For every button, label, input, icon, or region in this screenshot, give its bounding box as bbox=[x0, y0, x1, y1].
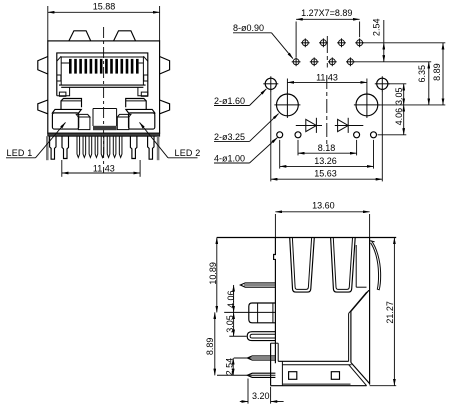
svg-text:3.20: 3.20 bbox=[252, 391, 270, 401]
svg-text:LED 1: LED 1 bbox=[7, 148, 33, 158]
svg-text:4.06: 4.06 bbox=[226, 290, 236, 308]
svg-text:15.63: 15.63 bbox=[314, 169, 337, 179]
svg-text:10.89: 10.89 bbox=[208, 262, 218, 285]
svg-text:13.60: 13.60 bbox=[312, 200, 335, 210]
svg-text:8-ø0.90: 8-ø0.90 bbox=[233, 23, 264, 33]
svg-text:11.43: 11.43 bbox=[316, 72, 338, 82]
svg-text:4.06: 4.06 bbox=[394, 108, 404, 126]
svg-text:13.26: 13.26 bbox=[314, 156, 337, 166]
svg-text:LED 2: LED 2 bbox=[175, 148, 201, 158]
svg-text:3.05: 3.05 bbox=[225, 315, 235, 333]
svg-text:2.54: 2.54 bbox=[372, 19, 382, 37]
svg-text:2-ø1.60: 2-ø1.60 bbox=[214, 96, 245, 106]
svg-text:4-ø1.00: 4-ø1.00 bbox=[214, 153, 245, 163]
svg-text:6.35: 6.35 bbox=[417, 65, 427, 83]
svg-text:21.27: 21.27 bbox=[385, 301, 395, 324]
svg-text:2.54: 2.54 bbox=[224, 358, 234, 376]
svg-text:1.27X7=8.89: 1.27X7=8.89 bbox=[301, 8, 352, 18]
svg-text:8.89: 8.89 bbox=[205, 338, 215, 356]
svg-text:11.43: 11.43 bbox=[93, 163, 115, 173]
svg-text:15.88: 15.88 bbox=[93, 2, 116, 12]
svg-text:8.89: 8.89 bbox=[432, 63, 442, 81]
svg-text:2-ø3.25: 2-ø3.25 bbox=[214, 132, 245, 142]
svg-text:3.05: 3.05 bbox=[394, 87, 404, 105]
svg-text:8.18: 8.18 bbox=[318, 143, 336, 153]
